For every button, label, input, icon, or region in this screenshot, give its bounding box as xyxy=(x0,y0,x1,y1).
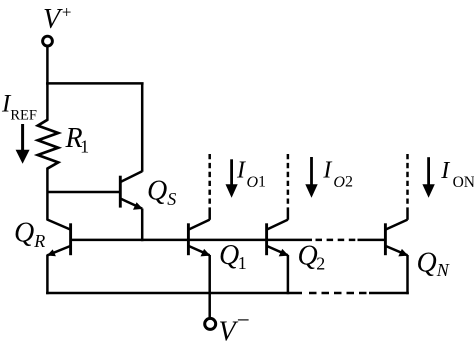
transistor Q2 xyxy=(267,220,289,257)
svg-text:QN: QN xyxy=(417,247,450,280)
wire xyxy=(287,255,290,294)
wire xyxy=(406,210,409,220)
wire xyxy=(369,292,409,295)
transistor Q1 xyxy=(188,220,210,257)
transistor QN xyxy=(385,220,408,257)
svg-text:I: I xyxy=(322,157,332,183)
node base rail xyxy=(71,239,312,242)
wire xyxy=(309,292,369,295)
transistor QS (helper) xyxy=(120,171,143,210)
svg-text:QR: QR xyxy=(14,218,45,252)
arrow ION xyxy=(422,157,434,198)
wire xyxy=(406,255,409,294)
svg-text:QS: QS xyxy=(147,176,176,210)
wire xyxy=(46,292,302,295)
wire xyxy=(46,83,49,121)
svg-text:ON: ON xyxy=(453,174,474,191)
wire xyxy=(316,239,358,242)
wire xyxy=(46,255,49,295)
resistor R1 xyxy=(38,120,58,169)
wire xyxy=(46,82,144,85)
svg-text:1: 1 xyxy=(258,174,266,191)
svg-text:Q1: Q1 xyxy=(219,240,247,273)
svg-text:O: O xyxy=(247,174,259,191)
terminal V- xyxy=(205,318,216,329)
wire xyxy=(141,83,144,171)
wire xyxy=(406,154,409,210)
wire xyxy=(46,168,49,221)
arrow IO2 xyxy=(305,157,317,198)
arrow IO1 xyxy=(226,159,238,198)
svg-text:Q2: Q2 xyxy=(298,240,326,273)
svg-text:I: I xyxy=(440,158,450,184)
wire xyxy=(287,154,290,210)
svg-text:O: O xyxy=(333,174,345,191)
transistor QR (reference) xyxy=(47,220,71,257)
svg-text:IREF: IREF xyxy=(1,91,37,124)
svg-text:2: 2 xyxy=(345,174,353,191)
wire xyxy=(208,255,211,317)
terminal V+ xyxy=(43,36,53,46)
wire xyxy=(358,239,386,242)
wire xyxy=(208,154,211,210)
arrow IREF xyxy=(16,124,30,164)
svg-text:I: I xyxy=(236,157,246,183)
wire xyxy=(208,210,211,220)
wire xyxy=(287,210,290,220)
svg-text:V−: V− xyxy=(219,308,250,346)
svg-text:R1: R1 xyxy=(65,123,90,157)
wire xyxy=(141,209,144,242)
wire xyxy=(47,191,119,194)
wire xyxy=(46,46,49,84)
svg-text:V+: V+ xyxy=(43,3,72,35)
